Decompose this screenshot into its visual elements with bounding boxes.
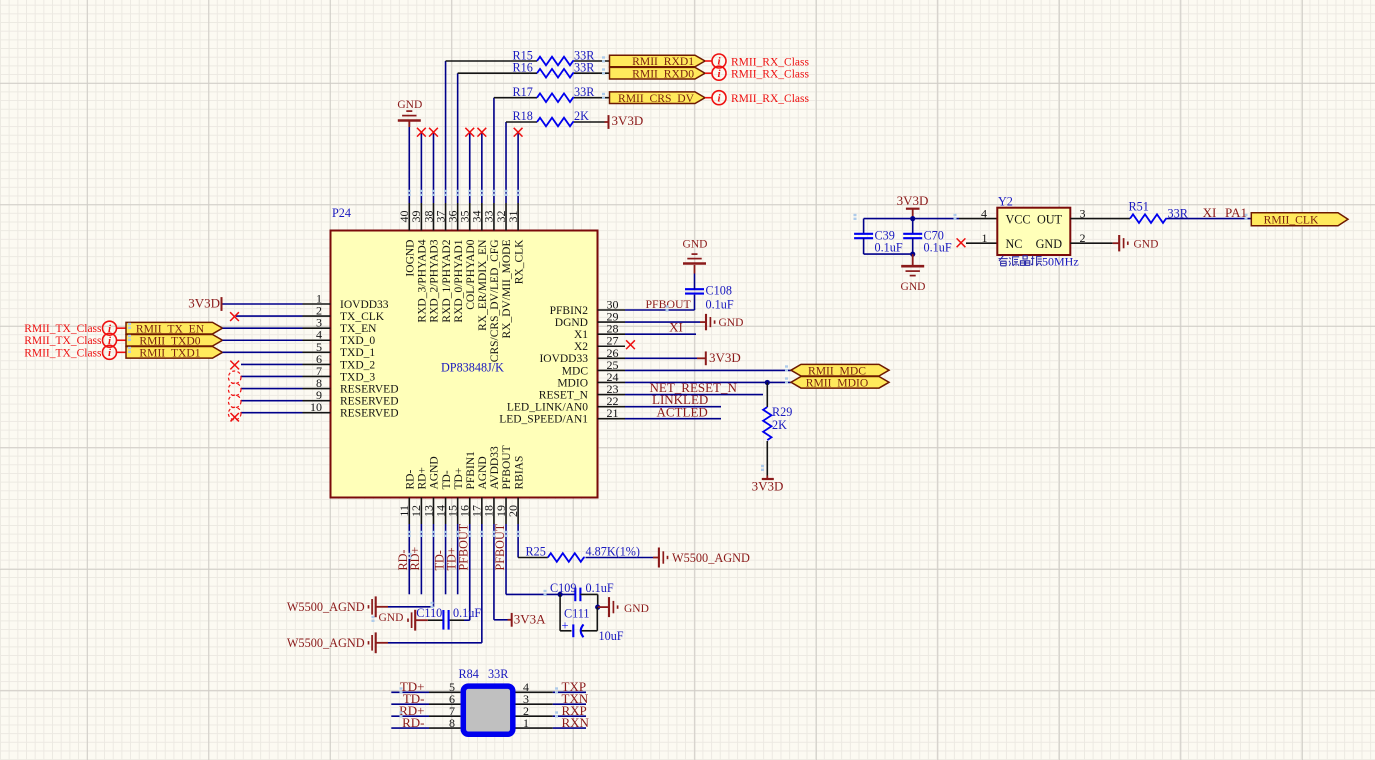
svg-text:PFBOUT: PFBOUT	[457, 523, 471, 570]
svg-text:RESERVED: RESERVED	[340, 396, 399, 408]
svg-text:VCC: VCC	[1006, 212, 1031, 226]
svg-text:XI: XI	[669, 320, 683, 335]
svg-text:RMII_MDC: RMII_MDC	[808, 364, 866, 377]
svg-text:0.1uF: 0.1uF	[706, 298, 734, 312]
svg-text:0.1uF: 0.1uF	[586, 581, 614, 595]
svg-text:RXN: RXN	[562, 715, 590, 730]
svg-text:W5500_AGND: W5500_AGND	[287, 600, 365, 614]
svg-text:RXD_2/PHYAD3: RXD_2/PHYAD3	[429, 239, 441, 322]
svg-text:0.1uF: 0.1uF	[453, 606, 481, 620]
svg-text:0.1uF: 0.1uF	[924, 241, 952, 255]
svg-text:LED_SPEED/AN1: LED_SPEED/AN1	[499, 414, 588, 426]
svg-text:GND: GND	[683, 239, 708, 251]
svg-text:MDC: MDC	[562, 365, 589, 377]
svg-text:3V3A: 3V3A	[514, 612, 546, 627]
svg-text:TD-: TD-	[441, 470, 453, 489]
svg-text:PFBOUT: PFBOUT	[501, 445, 513, 489]
svg-text:C110: C110	[416, 606, 442, 620]
svg-text:OUT: OUT	[1037, 212, 1063, 226]
svg-text:GND: GND	[624, 603, 649, 615]
svg-text:RMII_TX_Class: RMII_TX_Class	[24, 347, 102, 359]
svg-text:IOGND: IOGND	[405, 240, 417, 277]
svg-text:33R: 33R	[1168, 206, 1189, 220]
svg-text:33R: 33R	[574, 85, 595, 99]
svg-text:3V3D: 3V3D	[612, 113, 644, 128]
svg-text:RD+: RD+	[417, 467, 429, 489]
svg-text:RX_DV/MII_MODE: RX_DV/MII_MODE	[501, 240, 513, 339]
svg-text:RMII_CRS_DV: RMII_CRS_DV	[618, 92, 695, 105]
svg-text:P24: P24	[332, 206, 351, 220]
svg-text:PFBOUT: PFBOUT	[646, 297, 692, 311]
svg-text:R18: R18	[513, 109, 533, 123]
svg-text:IOVDD33: IOVDD33	[340, 299, 389, 311]
svg-text:PA1: PA1	[1225, 205, 1247, 220]
svg-text:AVDD33: AVDD33	[489, 446, 501, 489]
svg-text:ACTLED: ACTLED	[657, 404, 708, 419]
svg-text:C108: C108	[706, 284, 732, 298]
svg-text:X1: X1	[574, 329, 588, 341]
svg-text:1: 1	[523, 716, 529, 730]
svg-text:RD-: RD-	[402, 715, 424, 730]
svg-text:RESET_N: RESET_N	[539, 389, 589, 401]
svg-text:50MHz: 50MHz	[1042, 255, 1079, 269]
svg-text:33R: 33R	[574, 60, 595, 74]
svg-text:i: i	[717, 68, 721, 80]
svg-text:XI: XI	[1203, 205, 1217, 220]
svg-text:R16: R16	[513, 60, 533, 74]
svg-text:RMII_TX_EN: RMII_TX_EN	[136, 322, 205, 335]
svg-text:TX_EN: TX_EN	[340, 323, 377, 335]
svg-text:R84: R84	[459, 667, 479, 681]
svg-text:NC: NC	[1006, 237, 1023, 251]
svg-text:R25: R25	[526, 545, 546, 559]
svg-text:TXD_2: TXD_2	[340, 359, 375, 371]
svg-text:PFBIN2: PFBIN2	[550, 305, 589, 317]
svg-text:4.87K(1%): 4.87K(1%)	[586, 545, 641, 559]
svg-text:TXD_3: TXD_3	[340, 371, 375, 383]
svg-text:PFBOUT: PFBOUT	[493, 523, 507, 570]
svg-text:2K: 2K	[772, 418, 787, 432]
svg-text:R51: R51	[1129, 200, 1149, 214]
svg-text:RX_CLK: RX_CLK	[513, 239, 525, 284]
svg-text:3V3D: 3V3D	[752, 478, 784, 493]
svg-text:3V3D: 3V3D	[188, 296, 220, 311]
svg-text:RMII_RXD1: RMII_RXD1	[632, 55, 694, 68]
svg-text:RMII_TX_Class: RMII_TX_Class	[24, 323, 102, 335]
svg-text:RMII_TXD1: RMII_TXD1	[139, 347, 200, 360]
svg-text:GND: GND	[397, 99, 422, 111]
svg-text:2K: 2K	[574, 109, 589, 123]
svg-text:3V3D: 3V3D	[897, 193, 929, 208]
svg-text:GND: GND	[901, 281, 926, 293]
svg-text:PFBIN1: PFBIN1	[465, 451, 477, 490]
svg-text:RESERVED: RESERVED	[340, 408, 399, 420]
svg-text:RMII_TXD0: RMII_TXD0	[139, 334, 200, 347]
svg-text:RMII_RX_Class: RMII_RX_Class	[731, 69, 809, 81]
svg-text:COL/PHYAD0: COL/PHYAD0	[465, 239, 477, 310]
svg-text:i: i	[717, 92, 721, 104]
svg-text:1: 1	[982, 231, 988, 245]
svg-text:RXD_3/PHYAD4: RXD_3/PHYAD4	[417, 239, 429, 322]
svg-text:R17: R17	[513, 85, 533, 99]
svg-text:TD+: TD+	[453, 468, 465, 490]
svg-text:RESERVED: RESERVED	[340, 383, 399, 395]
svg-text:RMII_TX_Class: RMII_TX_Class	[24, 335, 102, 347]
svg-text:RMII_RX_Class: RMII_RX_Class	[731, 93, 809, 105]
svg-text:RMII_CLK: RMII_CLK	[1264, 214, 1319, 227]
svg-text:TXD_1: TXD_1	[340, 347, 375, 359]
svg-text:LED_LINK/AN0: LED_LINK/AN0	[507, 402, 588, 414]
svg-text:CRS/CRS_DV/LED_CFG: CRS/CRS_DV/LED_CFG	[489, 240, 501, 363]
svg-text:W5500_AGND: W5500_AGND	[287, 636, 365, 650]
svg-text:GND: GND	[719, 317, 744, 329]
svg-text:AGND: AGND	[429, 456, 441, 489]
svg-text:+: +	[562, 618, 569, 632]
svg-text:RXD_0/PHYAD1: RXD_0/PHYAD1	[453, 239, 465, 322]
svg-text:Y2: Y2	[998, 194, 1013, 208]
svg-text:AGND: AGND	[477, 456, 489, 489]
svg-text:RMII_RXD0: RMII_RXD0	[632, 67, 694, 80]
svg-text:MDIO: MDIO	[557, 377, 588, 389]
svg-text:GND: GND	[378, 612, 403, 624]
svg-text:DGND: DGND	[555, 317, 588, 329]
svg-text:RBIAS: RBIAS	[513, 456, 525, 490]
svg-text:4: 4	[981, 206, 987, 220]
svg-text:RXD_1/PHYAD2: RXD_1/PHYAD2	[441, 239, 453, 322]
svg-text:TX_CLK: TX_CLK	[340, 311, 385, 323]
svg-text:i: i	[108, 347, 112, 359]
svg-text:10uF: 10uF	[599, 629, 624, 643]
svg-text:0.1uF: 0.1uF	[875, 241, 903, 255]
svg-text:8: 8	[449, 716, 455, 730]
svg-text:3V3D: 3V3D	[709, 350, 741, 365]
svg-text:RMII_RX_Class: RMII_RX_Class	[731, 56, 809, 68]
svg-text:RMII_MDIO: RMII_MDIO	[806, 376, 868, 389]
svg-text:W5500_AGND: W5500_AGND	[672, 551, 750, 565]
svg-text:RX_ER/MDIX_EN: RX_ER/MDIX_EN	[477, 239, 489, 331]
svg-text:GND: GND	[1134, 238, 1159, 250]
svg-text:IOVDD33: IOVDD33	[539, 353, 588, 365]
svg-text:C109: C109	[550, 581, 576, 595]
svg-text:33R: 33R	[488, 667, 509, 681]
svg-text:X2: X2	[574, 341, 588, 353]
svg-text:GND: GND	[1036, 237, 1063, 251]
svg-text:TXD_0: TXD_0	[340, 335, 375, 347]
svg-text:RD-: RD-	[405, 470, 417, 490]
